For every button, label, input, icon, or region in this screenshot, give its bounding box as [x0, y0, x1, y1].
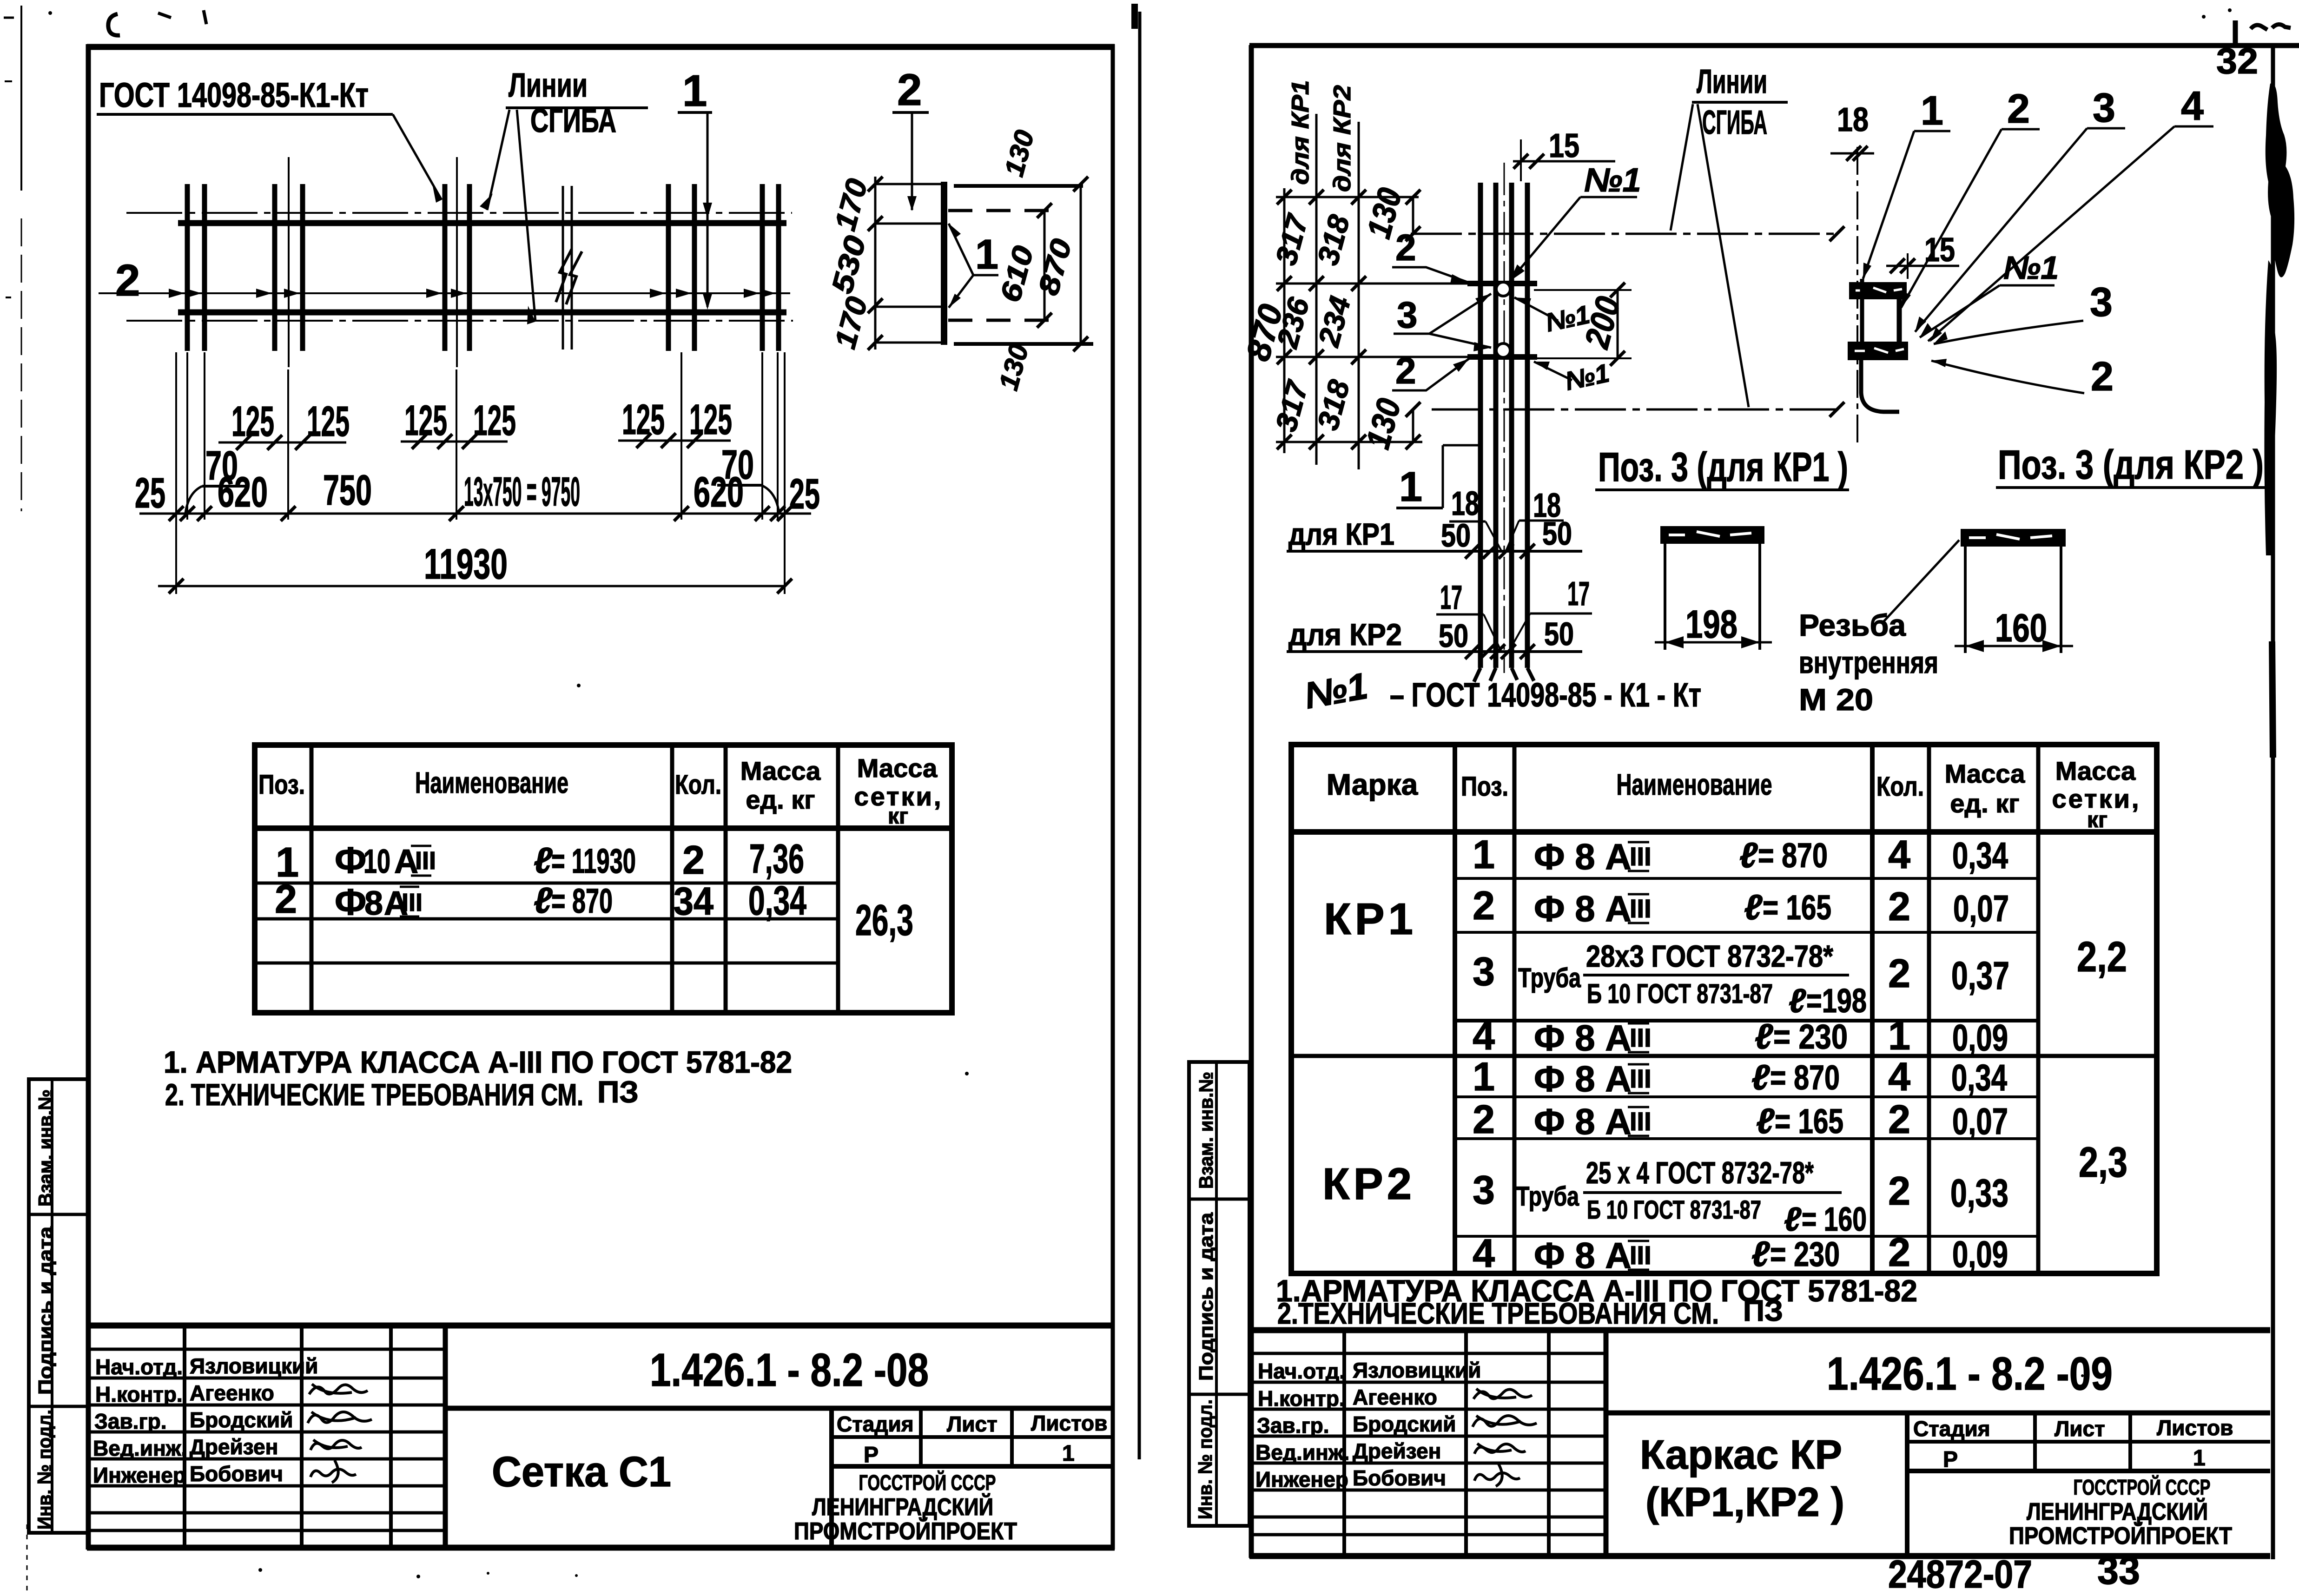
names grid sheet 2 — [1251, 1330, 1606, 1556]
svg-text:32: 32 — [2216, 40, 2258, 81]
svg-text:2: 2 — [275, 877, 297, 922]
svg-text:0,07: 0,07 — [1952, 1101, 2008, 1142]
svg-text:(КР1,КР2 ): (КР1,КР2 ) — [1645, 1479, 1844, 1525]
stadiya box sheet 2 — [1907, 1413, 2270, 1556]
svg-text:ГОССТРОЙ СССР: ГОССТРОЙ СССР — [2074, 1475, 2211, 1499]
svg-text:ед. кг: ед. кг — [746, 785, 815, 814]
section dim 130 bottom — [993, 341, 1035, 393]
svg-text:= 165: = 165 — [1763, 888, 1831, 927]
svg-text:Масса: Масса — [2055, 756, 2136, 785]
label Linii sgiba with leaders — [480, 67, 648, 324]
thread note — [1799, 540, 1959, 717]
svg-text:1: 1 — [1888, 1014, 1910, 1058]
svg-text:Н.контр.: Н.контр. — [95, 1382, 183, 1406]
spec total mass 26,3 — [855, 896, 913, 944]
pipe piece KR2 — [1961, 529, 2066, 653]
svg-text:4: 4 — [1888, 1055, 1910, 1099]
row KR1-4 — [1473, 1014, 2008, 1058]
svg-text:= 870: = 870 — [551, 882, 613, 920]
svg-text:Инв. № подл.: Инв. № подл. — [1194, 1399, 1216, 1519]
label GOST 14098-85-K1-Kt with leader — [97, 76, 442, 203]
svg-text:Стадия: Стадия — [837, 1412, 914, 1436]
extension lines below mesh — [176, 352, 785, 594]
dim 125 pair 3 — [618, 396, 732, 448]
transverse bar pos2 top — [1467, 281, 1537, 286]
break symbol — [556, 186, 582, 350]
svg-text:620: 620 — [694, 468, 744, 516]
svg-text:Б 10 ГОСТ 8731-87: Б 10 ГОСТ 8731-87 — [1587, 979, 1773, 1009]
spec table sheet 2 grid — [1291, 745, 2157, 1273]
svg-text:Масса: Масса — [857, 753, 938, 783]
bent bar hook — [1861, 359, 1899, 412]
svg-text:ед. кг: ед. кг — [1950, 789, 2019, 818]
callout 2 upper — [1392, 227, 1469, 284]
svg-text:Зав.гр.: Зав.гр. — [94, 1409, 167, 1433]
svg-text:Инв. № подл.: Инв. № подл. — [33, 1410, 55, 1530]
plate bottom hatched — [1848, 342, 1908, 360]
svg-text:Кол.: Кол. — [675, 770, 721, 800]
svg-text:№1: №1 — [1584, 162, 1641, 199]
left stamp boxes sheet 2 — [1189, 1062, 1249, 1526]
names text sheet 2 — [1255, 1358, 1481, 1491]
svg-text:18: 18 — [1451, 485, 1479, 522]
svg-text:= 165: = 165 — [1775, 1102, 1843, 1141]
spec table headers — [258, 753, 943, 829]
svg-text:2: 2 — [2091, 353, 2114, 399]
transverse bar leader line with arrows — [99, 289, 790, 298]
notes sheet 2 — [1276, 1273, 1917, 1330]
bottom dimension line — [135, 467, 820, 521]
svg-text:2: 2 — [1473, 1097, 1495, 1142]
note N1 GOST — [1301, 665, 1701, 716]
N1 bar through plates — [1860, 279, 1864, 344]
svg-text:= 160: = 160 — [1802, 1201, 1867, 1238]
svg-text:III: III — [1630, 894, 1652, 923]
svg-text:4: 4 — [1473, 1014, 1495, 1058]
svg-text:2: 2 — [1888, 884, 1910, 929]
svg-text:Инженер: Инженер — [93, 1463, 186, 1487]
svg-text:ℓ: ℓ — [1751, 1058, 1770, 1097]
callout 3 — [1394, 294, 1491, 351]
row KR2-2 — [1473, 1097, 2008, 1142]
svg-text:Агеенко: Агеенко — [1353, 1385, 1437, 1409]
mesh longitudinal bar bottom — [178, 310, 786, 316]
svg-text:125: 125 — [307, 398, 350, 445]
page number 32 — [2216, 40, 2258, 81]
svg-text:Поз.: Поз. — [258, 770, 305, 800]
svg-text:Дрейзен: Дрейзен — [190, 1435, 278, 1459]
svg-text:0,09: 0,09 — [1952, 1233, 2008, 1275]
section line 660 — [875, 306, 942, 308]
names grid sheet 1 — [88, 1326, 445, 1548]
svg-text:Ф 8 А: Ф 8 А — [1534, 836, 1632, 877]
svg-text:2: 2 — [897, 65, 922, 115]
dim 125 pair 1 — [218, 398, 350, 450]
svg-text:2: 2 — [682, 838, 705, 883]
svg-text:15: 15 — [1924, 231, 1955, 269]
mark KR1 — [1324, 894, 1417, 944]
left stamp boxes sheet 1 — [29, 1079, 88, 1533]
svg-text:2: 2 — [115, 256, 140, 305]
svg-text:1. АРМАТУРА КЛАССА А-III ПО: 1. АРМАТУРА КЛАССА А-III ПО ГОСТ 5781-82 — [164, 1045, 792, 1079]
dim 70 right — [717, 442, 779, 513]
dlya KR1 row — [1287, 515, 1582, 559]
weld circle top — [1496, 282, 1510, 296]
svg-text:Ф 8 А: Ф 8 А — [1534, 888, 1632, 929]
sheet 1 name — [492, 1448, 671, 1496]
svg-text:ℓ: ℓ — [1755, 1017, 1773, 1056]
svg-text:III: III — [1630, 1064, 1652, 1093]
dim 15 right — [1886, 231, 1959, 279]
label N1 top with leader — [1510, 162, 1641, 281]
row KR1-3 pipe — [1473, 939, 2009, 1020]
label N1 mid with leader — [1514, 297, 1592, 337]
mass 2,3 — [2079, 1139, 2127, 1186]
svg-text:0,09: 0,09 — [1952, 1017, 2008, 1058]
svg-text:4: 4 — [2181, 83, 2204, 129]
svg-text:125: 125 — [622, 396, 665, 443]
right sheet frame — [1249, 45, 2299, 1559]
svg-text:Взам. инв.№: Взам. инв.№ — [34, 1089, 56, 1207]
transverse bar pair 2 — [275, 157, 303, 367]
top-right scan marks — [2202, 8, 2291, 46]
dim 200 — [1534, 283, 1632, 366]
dim 130 top — [1360, 184, 1420, 242]
svg-text:ПЗ: ПЗ — [597, 1075, 639, 1109]
svg-text:0,33: 0,33 — [1950, 1171, 2008, 1215]
svg-text:25: 25 — [789, 470, 820, 518]
section dim 870 — [1032, 177, 1088, 351]
left sheet frame — [87, 44, 1115, 1550]
svg-text:28х3 ГОСТ 8732-78*: 28х3 ГОСТ 8732-78* — [1586, 939, 1833, 973]
svg-text:2,3: 2,3 — [2079, 1139, 2127, 1186]
svg-text:ПРОМСТРОЙПРОЕКТ: ПРОМСТРОЙПРОЕКТ — [794, 1517, 1017, 1545]
svg-text:3: 3 — [2093, 85, 2115, 131]
svg-text:ПРОМСТРОЙПРОЕКТ: ПРОМСТРОЙПРОЕКТ — [2009, 1522, 2232, 1550]
dim 17 17 pair — [1436, 575, 1592, 650]
right edge ink blob — [2264, 83, 2294, 1143]
svg-text:1: 1 — [1473, 832, 1495, 877]
svg-text:Наименование: Наименование — [1617, 768, 1772, 801]
bar end hooks — [1474, 668, 1534, 682]
signatures sheet 1 — [308, 1384, 372, 1483]
svg-text:Ф 8 А: Ф 8 А — [1534, 1058, 1632, 1099]
svg-text:Лист: Лист — [947, 1412, 998, 1436]
svg-text:ℓ: ℓ — [1744, 888, 1763, 927]
callout 3 diagonal — [1915, 85, 2125, 332]
svg-text:М 20: М 20 — [1799, 682, 1873, 717]
svg-text:Листов: Листов — [2157, 1416, 2233, 1440]
svg-text:Листов: Листов — [1031, 1411, 1107, 1435]
pipe between plates — [1897, 298, 1902, 343]
svg-text:17: 17 — [1440, 579, 1462, 616]
svg-text:III: III — [1630, 842, 1652, 871]
rotated dim numbers 870 317 318 236 234 — [1239, 210, 1357, 435]
dim 130 bottom — [1359, 395, 1420, 453]
signatures sheet 2 — [1473, 1389, 1537, 1486]
mesh top fold chain line — [126, 212, 792, 214]
dim 70 left — [185, 442, 246, 513]
svg-text:Бродский: Бродский — [1353, 1412, 1456, 1436]
svg-text:Линии: Линии — [509, 67, 588, 104]
org name sheet 1 — [794, 1471, 1017, 1545]
svg-text:Наименование: Наименование — [415, 766, 568, 799]
svg-text:Масса: Масса — [740, 756, 821, 785]
row KR1-2 — [1473, 884, 2009, 929]
transverse bar pair 4 — [668, 184, 694, 351]
svg-text:ℓ: ℓ — [1751, 1234, 1770, 1274]
stadiya box sheet 1 — [832, 1408, 1113, 1548]
label N1 assembly — [1920, 250, 2059, 337]
fold chain line bottom — [1432, 402, 1844, 417]
svg-text:ПЗ: ПЗ — [1743, 1294, 1783, 1327]
pipe piece KR1 — [1660, 526, 1764, 650]
section fold dashes bottom — [948, 319, 1054, 322]
svg-text:18: 18 — [1837, 101, 1869, 138]
svg-text:Вед.инж.: Вед.инж. — [1255, 1440, 1349, 1464]
svg-text:Стадия: Стадия — [1913, 1417, 1990, 1441]
svg-text:Линии: Линии — [1697, 63, 1767, 100]
transverse bar pair 5 — [762, 184, 779, 351]
row KR2-3 pipe — [1473, 1155, 2008, 1238]
svg-text:750: 750 — [323, 467, 372, 514]
bottom numbers — [1888, 1549, 2140, 1596]
svg-text:= 870: = 870 — [1758, 836, 1828, 875]
svg-text:Бобович: Бобович — [1353, 1466, 1446, 1490]
row KR2-1 — [1473, 1055, 2007, 1099]
transverse bar pair 3 — [445, 157, 469, 367]
svg-text:Р: Р — [864, 1443, 879, 1467]
svg-text:3: 3 — [2090, 279, 2113, 325]
svg-text:11930: 11930 — [424, 541, 508, 588]
svg-text:Взам. инв.№: Взам. инв.№ — [1195, 1072, 1217, 1189]
spec row 2 — [275, 877, 806, 923]
svg-text:ЛЕНИНГРАДСКИЙ: ЛЕНИНГРАДСКИЙ — [2027, 1498, 2208, 1525]
svg-text:1: 1 — [682, 66, 707, 116]
svg-text:Нач.отд.: Нач.отд. — [95, 1355, 183, 1379]
callout 4 diagonal — [1928, 83, 2213, 342]
svg-text:0,34: 0,34 — [748, 877, 806, 923]
names text sheet 1 — [93, 1354, 318, 1487]
svg-text:ℓ: ℓ — [534, 880, 553, 921]
caption Poz 3 dlya KR1 — [1595, 444, 1849, 490]
section view: left dim line 170 530 170 — [825, 175, 883, 352]
svg-text:10: 10 — [363, 843, 390, 880]
mass 2,2 — [2077, 933, 2127, 981]
mark KR2 — [1322, 1159, 1415, 1209]
svg-text:1: 1 — [1399, 464, 1422, 510]
svg-text:= 870: = 870 — [1770, 1058, 1840, 1097]
svg-text:1: 1 — [1921, 87, 1943, 133]
svg-text:Н.контр.: Н.контр. — [1258, 1386, 1345, 1411]
callout 2 top right — [892, 65, 929, 211]
svg-text:Подпись и дата: Подпись и дата — [1195, 1212, 1217, 1381]
fold chain line top — [1411, 226, 1844, 241]
caption Poz 3 dlya KR2 — [1996, 442, 2267, 488]
svg-text:III: III — [1630, 1023, 1652, 1052]
svg-text:Лист: Лист — [2055, 1417, 2105, 1441]
label 2 assembly — [1931, 353, 2114, 399]
dim 198 — [1655, 602, 1772, 648]
svg-text:Дрейзен: Дрейзен — [1353, 1439, 1441, 1463]
plate top hatched — [1849, 282, 1907, 299]
title block sheet 2 outer — [1251, 1330, 2270, 1556]
svg-text:для КР1: для КР1 — [1288, 517, 1394, 551]
svg-text:ℓ: ℓ — [534, 840, 553, 881]
svg-text:34: 34 — [674, 879, 713, 923]
callout 2 diagonal — [1901, 86, 2040, 308]
svg-text:2,2: 2,2 — [2077, 933, 2127, 981]
svg-text:Ф 8 А: Ф 8 А — [1534, 1017, 1632, 1058]
section callout 1 flag — [949, 224, 998, 308]
callout 2 left — [115, 256, 140, 305]
transverse bar pair 1 — [187, 184, 205, 351]
svg-text:для КР2: для КР2 — [1329, 85, 1356, 192]
svg-text:=198: =198 — [1806, 983, 1867, 1020]
svg-text:160: 160 — [1995, 606, 2047, 650]
section dim 610 — [994, 203, 1052, 328]
org name sheet 2 — [2009, 1475, 2232, 1550]
svg-text:1.426.1 - 8.2 -08: 1.426.1 - 8.2 -08 — [650, 1344, 929, 1396]
dim column labels dlya KR1 / KR2 — [1287, 80, 1356, 192]
dim 18 18 pair — [1449, 485, 1564, 551]
svg-text:Масса: Масса — [1945, 759, 2025, 788]
svg-text:ГОССТРОЙ СССР: ГОССТРОЙ СССР — [859, 1471, 996, 1495]
svg-text:125: 125 — [231, 398, 274, 445]
svg-text:= 11930: = 11930 — [551, 842, 636, 880]
right assembly centerline — [1856, 147, 1858, 447]
svg-text:Ф: Ф — [335, 839, 366, 881]
svg-text:4: 4 — [1888, 832, 1910, 877]
svg-text:15: 15 — [1549, 127, 1579, 165]
svg-text:III: III — [1630, 1107, 1652, 1136]
svg-text:Ф 8 А: Ф 8 А — [1534, 1101, 1632, 1142]
svg-text:Кол.: Кол. — [1876, 772, 1924, 802]
svg-text:4: 4 — [1473, 1231, 1495, 1276]
mesh bottom fold chain line — [126, 320, 793, 322]
mesh longitudinal bar top — [178, 220, 786, 226]
svg-text:Марка: Марка — [1327, 768, 1418, 801]
svg-text:= 230: = 230 — [1770, 1235, 1840, 1273]
svg-text:для КР2: для КР2 — [1288, 617, 1402, 652]
svg-text:Бродский: Бродский — [190, 1408, 293, 1432]
svg-text:2: 2 — [1888, 951, 1910, 996]
svg-text:КР2: КР2 — [1322, 1159, 1415, 1209]
vertical dim lines left — [1284, 114, 1359, 469]
doc number sheet 2 — [1827, 1348, 2113, 1400]
svg-text:= 230: = 230 — [1773, 1017, 1848, 1056]
section bottom edge line — [875, 343, 1093, 344]
overall dim 11930 — [158, 541, 792, 594]
svg-text:50: 50 — [1439, 618, 1468, 654]
svg-text:2: 2 — [2007, 86, 2030, 132]
label 3 assembly — [1934, 279, 2113, 344]
svg-text:24872-07: 24872-07 — [1888, 1552, 2032, 1596]
callout 1 (longitudinal bars) — [678, 66, 712, 310]
section fold dashes top — [948, 209, 1054, 212]
top-left scan marks — [48, 10, 206, 35]
svg-text:1: 1 — [1473, 1055, 1495, 1099]
svg-text:198: 198 — [1685, 602, 1737, 646]
right assembly: dim 18 — [1830, 101, 1874, 161]
svg-text:620: 620 — [218, 468, 268, 516]
right sheet Linii sgiba — [1671, 63, 1788, 407]
svg-text:0,37: 0,37 — [1951, 954, 2009, 997]
svg-text:50: 50 — [1441, 517, 1471, 554]
svg-text:2. ТЕХНИЧЕСКИЕ ТРЕБОВАНИЯ СМ.: 2. ТЕХНИЧЕСКИЕ ТРЕБОВАНИЯ СМ. — [165, 1077, 583, 1112]
svg-text:125: 125 — [473, 397, 516, 444]
svg-text:8: 8 — [364, 885, 383, 922]
svg-text:ℓ: ℓ — [1756, 1101, 1775, 1141]
svg-text:25 х 4 ГОСТ 8732-78*: 25 х 4 ГОСТ 8732-78* — [1586, 1155, 1814, 1190]
svg-text:Зав.гр.: Зав.гр. — [1257, 1413, 1329, 1438]
section dim 130 top — [999, 127, 1040, 179]
svg-text:ℓ: ℓ — [1739, 836, 1758, 875]
svg-text:Ф: Ф — [335, 881, 366, 923]
svg-text:2: 2 — [1473, 884, 1495, 928]
svg-text:III: III — [415, 847, 436, 875]
svg-text:1: 1 — [2193, 1446, 2206, 1471]
svg-text:Каркас КР: Каркас КР — [1640, 1431, 1842, 1477]
svg-text:0,34: 0,34 — [1952, 835, 2008, 876]
svg-text:25: 25 — [135, 469, 165, 517]
svg-text:2.ТЕХНИЧЕСКИЕ ТРЕБОВАНИЯ СМ.: 2.ТЕХНИЧЕСКИЕ ТРЕБОВАНИЯ СМ. — [1277, 1297, 1719, 1330]
dim 15 top — [1513, 127, 1615, 181]
bottom scan dots — [258, 684, 2084, 1578]
svg-text:2: 2 — [1888, 1230, 1910, 1275]
spec row 1 — [276, 836, 804, 886]
svg-text:33: 33 — [2097, 1549, 2140, 1592]
svg-text:Поз. 3 (для КР2 ): Поз. 3 (для КР2 ) — [1998, 442, 2264, 488]
svg-text:Труба: Труба — [1516, 1181, 1579, 1212]
notes sheet 1 — [164, 1045, 792, 1112]
svg-text:Инженер: Инженер — [1255, 1467, 1348, 1491]
svg-text:3: 3 — [1473, 950, 1495, 994]
svg-text:Труба: Труба — [1518, 963, 1581, 993]
svg-text:125: 125 — [689, 396, 732, 443]
svg-text:2: 2 — [1395, 227, 1416, 268]
svg-text:Бобович: Бобович — [190, 1462, 283, 1486]
title block sheet 1 outer — [88, 1326, 1113, 1548]
svg-text:Подпись и дата: Подпись и дата — [34, 1226, 56, 1395]
svg-text:2: 2 — [1395, 350, 1416, 391]
svg-text:кг: кг — [2087, 808, 2107, 832]
svg-text:0,07: 0,07 — [1953, 888, 2009, 929]
svg-text:Р: Р — [1943, 1447, 1958, 1472]
row KR1-1 — [1473, 832, 2008, 877]
svg-text:для КР1: для КР1 — [1287, 80, 1314, 185]
svg-text:кг: кг — [888, 804, 908, 829]
svg-text:17: 17 — [1567, 575, 1590, 613]
svg-text:ЛЕНИНГРАДСКИЙ: ЛЕНИНГРАДСКИЙ — [812, 1493, 993, 1521]
svg-text:0,34: 0,34 — [1951, 1057, 2007, 1098]
svg-text:III: III — [1630, 1240, 1652, 1270]
svg-text:Язловицкий: Язловицкий — [190, 1354, 318, 1378]
svg-text:50: 50 — [1544, 616, 1574, 652]
section mesh edge bar — [941, 182, 947, 345]
callout 1 diagonal — [1863, 87, 1950, 279]
svg-text:3: 3 — [1397, 294, 1418, 336]
svg-text:ℓ: ℓ — [1789, 983, 1806, 1020]
svg-text:26,3: 26,3 — [855, 896, 913, 944]
section top edge line — [875, 184, 1083, 186]
svg-text:Нач.отд.: Нач.отд. — [1258, 1359, 1345, 1383]
svg-text:Агеенко: Агеенко — [190, 1381, 274, 1405]
callout 1 bottom with bracket leader — [1396, 445, 1478, 510]
section line 481 — [875, 223, 942, 225]
svg-text:Вед.инж.: Вед.инж. — [93, 1436, 187, 1460]
svg-text:СГИБА: СГИБА — [1702, 104, 1767, 141]
